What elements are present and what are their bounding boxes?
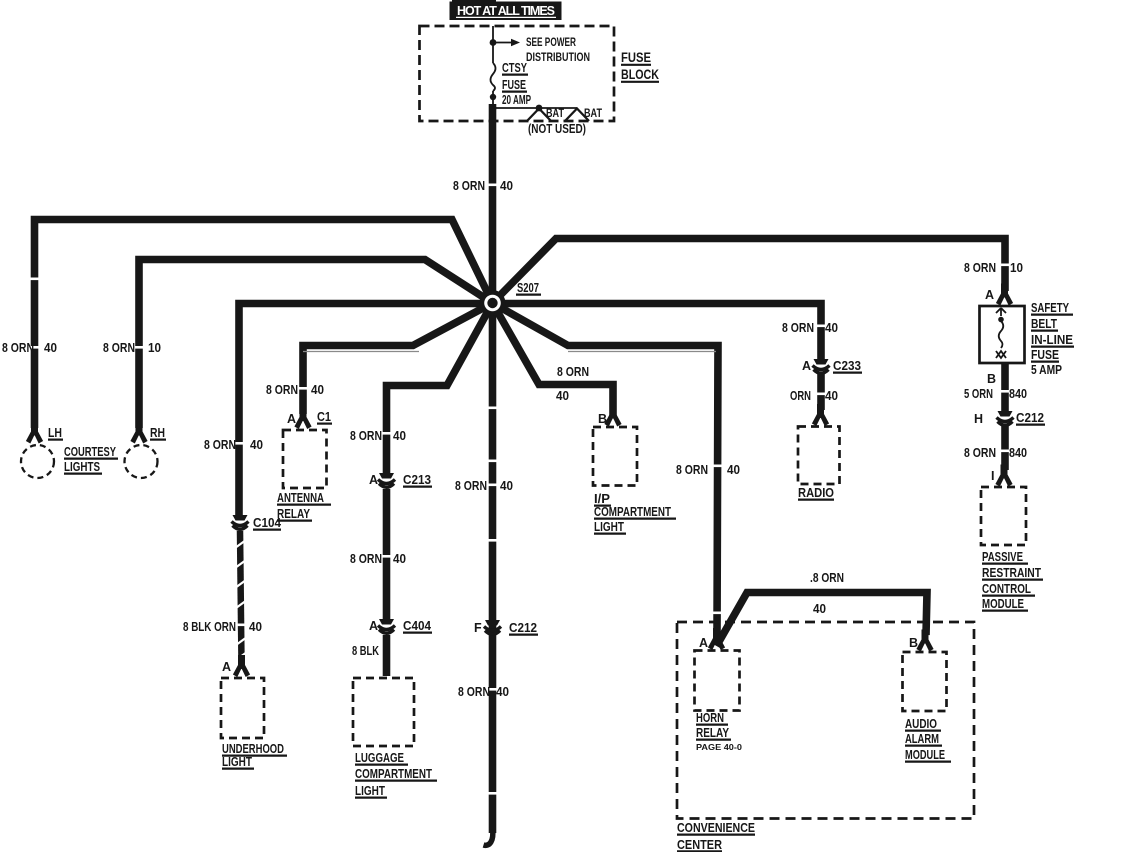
label: 5 ORN 840 [964,387,1027,401]
svg-text:840: 840 [1009,446,1027,460]
label: RADIO [798,486,834,500]
svg-text:COMPARTMENT: COMPARTMENT [594,505,671,519]
svg-text:PASSIVE: PASSIVE [982,550,1023,564]
svg-text:8 ORN: 8 ORN [204,438,236,452]
svg-text:CONVENIENCE: CONVENIENCE [677,821,755,835]
wire: below safety fuse [1001,363,1009,412]
svg-text:40: 40 [727,463,740,477]
label: 8 ORN 40 (main feed) [453,179,513,193]
terminal: safety fuse top [996,284,1013,306]
wire: branch to radio [493,304,822,361]
wire: radio lower segment [817,373,825,410]
safety belt in-line fuse box [980,306,1025,363]
label: 8 ORN 40 (center lower) [458,685,509,699]
svg-text:RADIO: RADIO [798,486,834,500]
label: FUSE BLOCK [621,50,659,82]
svg-text:8 ORN: 8 ORN [350,429,382,443]
svg-text:UNDERHOOD: UNDERHOOD [222,742,284,756]
wire tick luggage 2 [382,555,392,558]
label: 8 ORN 40 (antenna) [266,383,324,397]
svg-text:A: A [985,288,994,302]
wire: to passive restraint module [1001,426,1009,470]
svg-text:H: H [974,412,983,426]
svg-text:SEE POWER: SEE POWER [526,37,576,49]
wire: bat branch [493,107,577,109]
svg-text:8 ORN: 8 ORN [103,341,135,355]
underhood light box [221,678,264,738]
ghost line under convenience horizontal [568,351,716,353]
label: 8 ORN 40 (center upper) [455,479,513,493]
svg-text:HORN: HORN [696,711,724,725]
svg-text:LIGHT: LIGHT [355,784,385,798]
terminal: underhood light [233,655,250,677]
svg-text:10: 10 [1010,261,1023,275]
svg-text:BAT: BAT [584,108,602,120]
svg-text:A: A [222,660,231,674]
svg-text:40: 40 [44,341,57,355]
connector C233 [813,359,830,373]
label: 8 ORN 10 (RH) [103,341,161,355]
label: COURTESY LIGHTS [64,445,118,474]
svg-text:C213: C213 [403,473,431,487]
svg-text:5 AMP: 5 AMP [1031,363,1062,377]
label: 8 ORN 40 (luggage upper) [350,429,406,443]
svg-text:8 ORN: 8 ORN [782,321,814,335]
label: LUGGAGE COMPARTMENT LIGHT [355,751,437,798]
label: C404 [403,619,432,633]
label: UNDERHOOD LIGHT [222,742,287,769]
bat terminal 1 [527,109,551,122]
svg-text:8 ORN: 8 ORN [2,341,34,355]
svg-text:A: A [699,636,708,650]
label: C213 [403,473,432,487]
svg-text:8 ORN: 8 ORN [453,179,485,193]
arrow: see power distribution [493,37,590,64]
svg-text:40: 40 [825,321,838,335]
label: ANTENNA RELAY [277,491,331,521]
terminal: radio [812,404,829,426]
label: 8 ORN 40 (radio upper) [782,321,838,335]
svg-text:A: A [802,359,811,373]
svg-text:F: F [474,621,482,635]
svg-text:MODULE: MODULE [982,597,1024,611]
svg-text:DISTRIBUTION: DISTRIBUTION [526,52,590,64]
svg-text:PAGE 40-0: PAGE 40-0 [696,742,742,752]
wire tick RH [134,346,144,349]
svg-text:ANTENNA: ANTENNA [277,491,324,505]
svg-text:LIGHTS: LIGHTS [64,460,100,474]
wire: fuse block internal vertical [492,26,494,63]
connector C404 [378,619,395,633]
label: ORN 40 (radio lower) [790,389,838,403]
wire: horn relay to audio alarm module .8 ORN [717,593,928,647]
svg-text:LIGHT: LIGHT [222,755,252,769]
svg-text:RELAY: RELAY [277,507,311,521]
svg-text:40: 40 [556,389,569,403]
svg-text:840: 840 [1009,387,1027,401]
svg-text:.8 ORN: .8 ORN [810,571,844,585]
svg-text:COMPARTMENT: COMPARTMENT [355,767,432,781]
svg-text:B: B [987,372,996,386]
svg-text:ALARM: ALARM [905,732,939,746]
svg-text:40: 40 [825,389,838,403]
svg-text:40: 40 [393,552,406,566]
luggage compartment light box [353,678,414,746]
svg-text:20 AMP: 20 AMP [502,93,531,107]
splice S207 [480,290,506,316]
label: CONVENIENCE CENTER [677,821,755,852]
label: 8 ORN 40 (underhood) [204,438,263,452]
convenience center box [677,622,974,819]
svg-text:A: A [369,473,378,487]
wire tick radio 1 [816,325,826,328]
wire: branch to underhood light [239,304,493,517]
wire tick antenna [298,387,308,390]
terminal: antenna relay [294,407,311,429]
courtesy light LH [21,445,54,478]
wire: branch to LH courtesy light [35,220,493,429]
label: .8 ORN 40 [810,571,844,616]
svg-text:C404: C404 [403,619,431,633]
wire tick safety 3 [1000,450,1010,453]
svg-text:40: 40 [500,479,513,493]
passive restraint control module box [981,487,1026,545]
top black bar fragment [452,0,496,3]
svg-text:40: 40 [250,438,263,452]
terminal: horn relay [708,628,725,650]
svg-text:COURTESY: COURTESY [64,445,116,459]
wire: main feed vertical from fuse block [489,104,497,303]
svg-text:CONTROL: CONTROL [982,582,1031,596]
svg-text:I: I [991,469,994,483]
fuse element inside safety fuse box [996,308,1006,358]
svg-text:40: 40 [496,685,509,699]
antenna relay box [283,430,327,488]
wire: branch to safety belt fuse [493,239,1006,304]
svg-text:FUSE: FUSE [621,50,651,65]
svg-text:8 ORN: 8 ORN [266,383,298,397]
connector C212 right [997,411,1014,425]
svg-text:A: A [369,619,378,633]
label: 8 BLK ORN 40 [183,620,262,634]
wire ticks LH [30,278,40,281]
wire tick safety 1 [1000,264,1010,267]
wire: branch to convenience center [493,303,719,634]
label: LH [48,426,63,440]
svg-text:CENTER: CENTER [677,838,722,852]
svg-text:BAT: BAT [546,108,564,120]
wire: 8 BLK to luggage light [383,635,391,676]
svg-text:C233: C233 [833,359,861,373]
svg-text:8 BLK ORN: 8 BLK ORN [183,620,236,634]
radio box [798,427,840,485]
label: RH [150,426,166,440]
svg-text:8 ORN: 8 ORN [350,552,382,566]
label: 8 ORN 40 (convenience) [676,463,740,477]
label: C104 [253,516,281,530]
svg-text:C212: C212 [509,621,537,635]
svg-text:40: 40 [813,602,826,616]
courtesy light RH [125,445,158,478]
svg-text:S207: S207 [517,281,539,295]
svg-text:LIGHT: LIGHT [594,520,624,534]
wire tick convenience [713,465,723,468]
wire tick safety 2 [1000,390,1010,393]
svg-text:8 ORN: 8 ORN [455,479,487,493]
svg-text:40: 40 [249,620,262,634]
svg-text:AUDIO: AUDIO [905,717,937,731]
label: HORN RELAY PAGE 40-0 [696,711,742,752]
label: C212 [509,621,538,635]
wire: hatched 8 BLK ORN [235,531,247,663]
svg-text:8 BLK: 8 BLK [352,644,379,658]
label: C1 [317,410,332,424]
svg-text:40: 40 [393,429,406,443]
svg-text:CTSY: CTSY [502,61,527,75]
wire ticks center [488,407,498,410]
bat terminal 2 [565,109,589,122]
svg-text:B: B [909,636,918,650]
svg-text:LUGGAGE: LUGGAGE [355,751,404,765]
svg-text:RESTRAINT: RESTRAINT [982,566,1041,580]
svg-text:RH: RH [150,426,165,440]
label: SAFETY BELT IN-LINE FUSE 5 AMP [1031,301,1074,377]
node: power distribution tap [490,39,497,46]
svg-text:HOT AT ALL TIMES: HOT AT ALL TIMES [457,4,555,18]
horn relay box [695,651,740,711]
terminal: passive restraint module [995,465,1012,487]
ghost line under antenna horizontal [303,351,419,353]
svg-text:8 ORN: 8 ORN [557,365,589,379]
wire tick radio 2 [816,393,826,396]
terminal: LH lamp [26,422,43,444]
svg-text:40: 40 [311,383,324,397]
terminal: RH lamp [130,422,147,444]
label: 8 ORN 40 (LH) [2,341,57,355]
svg-text:BELT: BELT [1031,317,1057,331]
label: 8 ORN 10 (safety) [964,261,1023,275]
svg-text:MODULE: MODULE [905,748,945,762]
wire tick underhood [234,442,244,445]
label: I/P COMPARTMENT LIGHT [594,492,676,534]
label: PASSIVE RESTRAINT CONTROL MODULE [982,550,1043,611]
svg-text:8 ORN: 8 ORN [676,463,708,477]
connector C212 center [484,620,501,634]
svg-text:A: A [287,412,296,426]
svg-text:FUSE: FUSE [502,78,526,92]
svg-text:8 ORN: 8 ORN [964,261,996,275]
svg-text:LH: LH [48,426,62,440]
wire: branch to antenna relay [303,303,493,414]
svg-text:C212: C212 [1016,411,1044,425]
svg-text:8 ORN: 8 ORN [964,446,996,460]
hook at bottom of center wire [484,829,493,845]
svg-text:8 ORN: 8 ORN [458,685,490,699]
label: C233 [833,359,862,373]
svg-text:FUSE: FUSE [1031,348,1059,362]
svg-text:10: 10 [148,341,161,355]
I/P compartment light box [593,427,637,486]
label: HOT AT ALL TIMES [450,2,562,21]
wire: center trunk down [489,303,497,833]
wire: branch to RH courtesy light [139,260,493,429]
svg-text:BLOCK: BLOCK [621,67,659,82]
fuse CTSY [491,61,532,107]
svg-text:I/P: I/P [594,492,610,506]
svg-text:ORN: ORN [790,389,811,403]
connector C104 [232,515,249,529]
label: AUDIO ALARM MODULE [905,717,951,762]
terminal: audio alarm module [916,630,933,652]
connector C213 [378,473,395,487]
node: bat branch junction [490,105,497,112]
wire: branch to I/P compartment light [493,303,614,417]
label: C212 right [1016,411,1045,425]
svg-text:SAFETY: SAFETY [1031,301,1070,315]
svg-text:IN-LINE: IN-LINE [1031,333,1073,347]
label: S207 [516,281,541,295]
svg-text:40: 40 [500,179,513,193]
terminal: I/P light [604,405,621,427]
node: below fuse [490,94,496,100]
wire: branch to luggage compartment light [387,303,493,474]
svg-text:(NOT USED): (NOT USED) [528,122,586,136]
audio alarm module box [903,652,947,711]
label: 8 ORN 840 [964,446,1027,460]
svg-text:RELAY: RELAY [696,726,730,740]
svg-text:C1: C1 [317,410,331,424]
fuse block box [420,26,615,121]
svg-text:5 ORN: 5 ORN [964,387,993,401]
node: bat tap [536,105,543,112]
label: 8 ORN 40 (luggage lower) [350,552,406,566]
wire: luggage middle segment [383,489,391,620]
wire tick luggage 1 [382,432,392,435]
